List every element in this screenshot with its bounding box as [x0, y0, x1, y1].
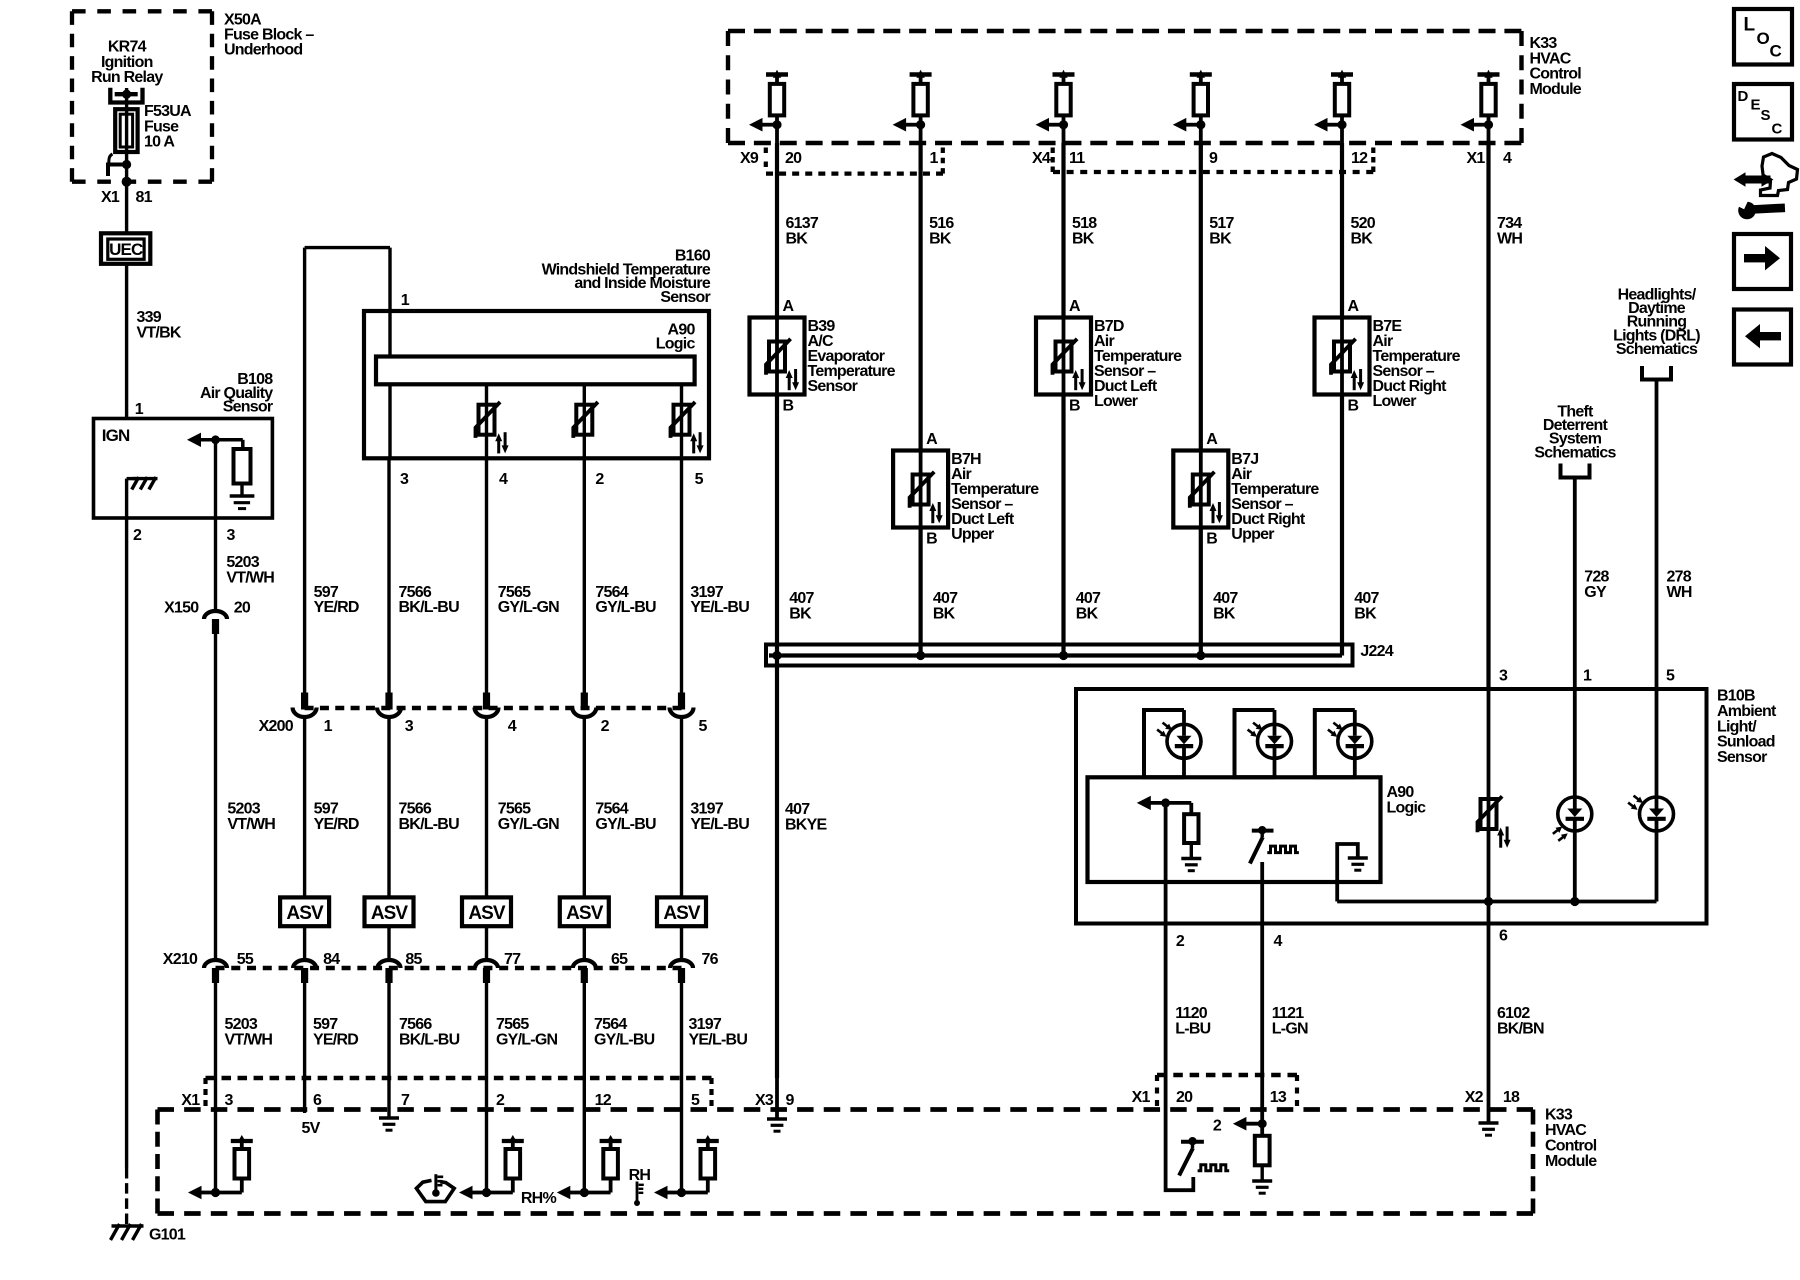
svg-text:X1: X1 [101, 189, 120, 206]
svg-text:278: 278 [1667, 569, 1692, 586]
svg-text:BK: BK [929, 230, 952, 247]
svg-text:VT/WH: VT/WH [225, 1032, 273, 1049]
svg-text:J224: J224 [1360, 643, 1393, 660]
svg-text:L-BU: L-BU [1175, 1021, 1210, 1038]
svg-text:1121: 1121 [1272, 1005, 1305, 1022]
svg-text:K33: K33 [1545, 1107, 1573, 1124]
svg-text:X9: X9 [740, 150, 759, 167]
svg-text:X210: X210 [163, 951, 198, 968]
svg-text:A: A [783, 298, 795, 315]
svg-text:BKYE: BKYE [785, 817, 827, 834]
svg-text:UEC: UEC [109, 240, 143, 259]
svg-text:Schematics: Schematics [1616, 341, 1698, 358]
svg-text:2: 2 [595, 471, 604, 488]
svg-text:65: 65 [611, 951, 628, 968]
svg-text:Module: Module [1545, 1153, 1597, 1170]
svg-text:X2: X2 [1465, 1089, 1484, 1106]
svg-text:Logic: Logic [656, 335, 696, 352]
svg-text:3197: 3197 [690, 801, 723, 818]
svg-text:12: 12 [1351, 150, 1368, 167]
svg-text:Control: Control [1545, 1138, 1597, 1155]
svg-text:RH: RH [629, 1167, 651, 1184]
svg-text:5: 5 [1666, 668, 1675, 685]
svg-text:RH%: RH% [521, 1190, 557, 1207]
svg-text:5203: 5203 [227, 801, 260, 818]
svg-text:7: 7 [401, 1092, 410, 1109]
svg-text:Sensor: Sensor [1717, 749, 1767, 766]
svg-text:BK: BK [1354, 605, 1377, 622]
svg-text:X150: X150 [164, 600, 199, 617]
svg-text:Sensor: Sensor [223, 399, 273, 416]
svg-text:VT/WH: VT/WH [226, 569, 274, 586]
svg-text:ASV: ASV [371, 903, 409, 924]
svg-text:3: 3 [405, 718, 414, 735]
svg-text:Upper: Upper [1231, 526, 1274, 543]
svg-text:Run Relay: Run Relay [91, 69, 163, 86]
svg-text:VT/WH: VT/WH [227, 816, 275, 833]
svg-text:1: 1 [401, 292, 410, 309]
svg-text:BK: BK [1351, 230, 1374, 247]
svg-text:1120: 1120 [1175, 1005, 1208, 1022]
svg-text:B: B [926, 531, 937, 548]
svg-text:A: A [1069, 298, 1081, 315]
svg-text:20: 20 [1176, 1089, 1193, 1106]
svg-text:BK: BK [1209, 230, 1232, 247]
svg-text:BK: BK [789, 605, 812, 622]
svg-text:81: 81 [136, 189, 153, 206]
svg-text:5V: 5V [301, 1120, 320, 1137]
svg-text:D: D [1738, 88, 1749, 105]
svg-text:76: 76 [702, 951, 719, 968]
svg-text:7564: 7564 [595, 801, 628, 818]
svg-text:GY/L-GN: GY/L-GN [498, 816, 559, 833]
svg-text:7566: 7566 [399, 1016, 432, 1033]
svg-text:Logic: Logic [1387, 799, 1427, 816]
svg-text:3197: 3197 [689, 1016, 722, 1033]
svg-text:C: C [1772, 121, 1783, 138]
svg-text:BK/L-BU: BK/L-BU [399, 599, 460, 616]
svg-text:6: 6 [1499, 928, 1508, 945]
svg-text:3: 3 [1499, 668, 1508, 685]
svg-text:IGN: IGN [102, 426, 130, 445]
svg-text:728: 728 [1584, 569, 1609, 586]
svg-text:597: 597 [314, 801, 339, 818]
svg-text:VT/BK: VT/BK [137, 324, 182, 341]
svg-text:5: 5 [695, 471, 704, 488]
svg-text:WH: WH [1667, 584, 1692, 601]
svg-text:10 A: 10 A [144, 134, 175, 151]
svg-text:A: A [1348, 298, 1360, 315]
svg-text:X1: X1 [1132, 1089, 1151, 1106]
svg-text:X4: X4 [1032, 150, 1051, 167]
svg-text:E: E [1751, 96, 1761, 113]
svg-text:6: 6 [313, 1092, 322, 1109]
svg-text:20: 20 [234, 600, 251, 617]
svg-text:Upper: Upper [951, 526, 994, 543]
svg-text:BK: BK [786, 230, 809, 247]
svg-text:X3: X3 [755, 1092, 774, 1109]
svg-text:BK: BK [1072, 230, 1095, 247]
svg-text:YE/L-BU: YE/L-BU [689, 1032, 748, 1049]
svg-text:5203: 5203 [225, 1016, 258, 1033]
svg-text:HVAC: HVAC [1545, 1122, 1587, 1139]
svg-text:4: 4 [1503, 150, 1512, 167]
svg-text:Lower: Lower [1094, 393, 1138, 410]
svg-text:3: 3 [400, 471, 409, 488]
svg-text:G101: G101 [149, 1227, 186, 1244]
svg-text:9: 9 [1209, 150, 1218, 167]
svg-text:Sensor: Sensor [660, 289, 710, 306]
svg-text:YE/RD: YE/RD [314, 816, 359, 833]
svg-text:2: 2 [601, 718, 610, 735]
svg-text:BK/L-BU: BK/L-BU [399, 816, 460, 833]
svg-text:S: S [1761, 107, 1771, 124]
svg-text:YE/L-BU: YE/L-BU [690, 816, 749, 833]
svg-text:L-GN: L-GN [1272, 1021, 1308, 1038]
svg-text:ASV: ASV [468, 903, 506, 924]
svg-text:5: 5 [691, 1092, 700, 1109]
svg-text:7566: 7566 [399, 801, 432, 818]
svg-text:2: 2 [1176, 933, 1185, 950]
svg-text:4: 4 [508, 718, 517, 735]
svg-text:B: B [1348, 398, 1359, 415]
svg-text:6102: 6102 [1497, 1005, 1530, 1022]
svg-text:BK: BK [1076, 605, 1099, 622]
svg-text:13: 13 [1270, 1089, 1287, 1106]
svg-text:77: 77 [504, 951, 521, 968]
svg-text:1: 1 [1583, 668, 1592, 685]
svg-text:85: 85 [405, 951, 422, 968]
svg-text:20: 20 [785, 150, 802, 167]
svg-text:84: 84 [323, 951, 340, 968]
svg-text:9: 9 [786, 1092, 795, 1109]
svg-text:3: 3 [225, 1092, 234, 1109]
svg-text:7564: 7564 [594, 1016, 627, 1033]
svg-text:1: 1 [135, 401, 144, 418]
svg-text:4: 4 [1274, 933, 1283, 950]
svg-text:GY/L-BU: GY/L-BU [595, 599, 656, 616]
svg-text:L: L [1744, 15, 1756, 36]
svg-text:B: B [783, 398, 794, 415]
svg-text:BK: BK [1213, 605, 1236, 622]
svg-text:X1: X1 [1467, 150, 1486, 167]
svg-text:C: C [1770, 42, 1782, 61]
svg-text:B: B [1206, 531, 1217, 548]
svg-text:BK/L-BU: BK/L-BU [399, 1032, 460, 1049]
svg-text:Module: Module [1530, 81, 1582, 98]
svg-text:A: A [1206, 431, 1218, 448]
svg-text:Underhood: Underhood [224, 42, 302, 59]
svg-text:BK/BN: BK/BN [1497, 1021, 1544, 1038]
svg-text:YE/RD: YE/RD [314, 599, 359, 616]
svg-text:Schematics: Schematics [1534, 444, 1616, 461]
svg-text:O: O [1757, 29, 1770, 48]
svg-text:7565: 7565 [496, 1016, 529, 1033]
svg-text:5: 5 [699, 718, 708, 735]
svg-text:X200: X200 [259, 718, 294, 735]
svg-text:11: 11 [1069, 150, 1085, 167]
svg-text:1: 1 [930, 150, 939, 167]
svg-text:55: 55 [237, 951, 254, 968]
svg-text:ASV: ASV [663, 903, 701, 924]
svg-text:BK: BK [933, 605, 956, 622]
svg-text:18: 18 [1503, 1089, 1520, 1106]
svg-text:WH: WH [1497, 230, 1522, 247]
svg-text:407: 407 [785, 801, 810, 818]
svg-text:GY: GY [1584, 584, 1607, 601]
svg-text:12: 12 [595, 1092, 612, 1109]
svg-text:2: 2 [1213, 1118, 1222, 1135]
svg-text:Lower: Lower [1373, 393, 1417, 410]
svg-text:GY/L-GN: GY/L-GN [496, 1032, 557, 1049]
svg-text:3: 3 [227, 527, 236, 544]
svg-text:GY/L-BU: GY/L-BU [594, 1032, 655, 1049]
svg-text:YE/L-BU: YE/L-BU [690, 599, 749, 616]
svg-text:Sensor: Sensor [808, 378, 858, 395]
svg-text:A: A [926, 431, 938, 448]
svg-text:7565: 7565 [498, 801, 531, 818]
svg-text:ASV: ASV [286, 903, 324, 924]
svg-text:GY/L-GN: GY/L-GN [498, 599, 559, 616]
svg-text:2: 2 [133, 527, 142, 544]
svg-text:GY/L-BU: GY/L-BU [595, 816, 656, 833]
svg-text:YE/RD: YE/RD [313, 1032, 358, 1049]
svg-text:B: B [1069, 398, 1080, 415]
svg-text:4: 4 [499, 471, 508, 488]
svg-text:X1: X1 [181, 1092, 200, 1109]
svg-text:ASV: ASV [566, 903, 604, 924]
svg-text:597: 597 [313, 1016, 338, 1033]
svg-text:1: 1 [324, 718, 333, 735]
svg-text:2: 2 [496, 1092, 505, 1109]
